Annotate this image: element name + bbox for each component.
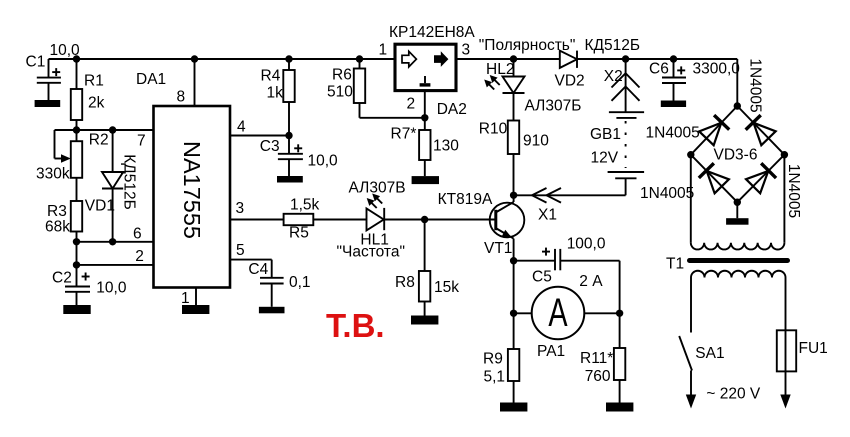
regulator output arrow (filled)	[434, 51, 448, 67]
svg-text:2k: 2k	[88, 95, 105, 112]
resistor R4	[283, 59, 294, 136]
ground (bridge)	[726, 218, 748, 225]
connector X2	[612, 59, 640, 112]
diode VD5 (bridge bottom-left)	[699, 163, 729, 193]
svg-text:PA1: PA1	[537, 343, 565, 360]
svg-text:7: 7	[137, 133, 146, 150]
node VD1 bottom	[109, 238, 116, 245]
wire bridge edge top-left	[691, 106, 738, 155]
ground (C4)	[259, 307, 285, 314]
resistor R6	[354, 59, 425, 118]
svg-text:3: 3	[236, 200, 245, 217]
node rail-C6	[670, 55, 677, 62]
node bridge right	[781, 151, 788, 158]
svg-text:10,0: 10,0	[50, 42, 81, 59]
diode VD6 (bridge bottom-right)	[746, 163, 776, 193]
svg-text:VD2: VD2	[555, 73, 585, 90]
svg-text:330k: 330k	[36, 166, 70, 183]
switch SA1	[679, 278, 696, 409]
svg-text:130: 130	[433, 138, 459, 155]
wire output rail (DA2 pin3 to VD2)	[456, 58, 560, 60]
svg-text:5: 5	[236, 242, 245, 259]
svg-text:FU1: FU1	[799, 340, 828, 357]
regulator input arrow (outline)	[402, 51, 416, 67]
svg-text:R10: R10	[479, 121, 508, 138]
resistor R9	[508, 349, 519, 403]
wire rail corner down to bridge	[736, 59, 738, 106]
fuse FU1	[777, 278, 796, 409]
svg-text:R5: R5	[289, 225, 309, 242]
svg-text:X2: X2	[604, 68, 623, 85]
svg-text:R1: R1	[84, 73, 104, 90]
svg-text:DA1: DA1	[136, 71, 166, 88]
wire emitter chain down	[513, 261, 515, 349]
node emitter-C5	[510, 257, 517, 264]
capacitor C1	[37, 59, 61, 100]
node rail-HL2	[510, 55, 517, 62]
svg-text:C3: C3	[260, 138, 280, 155]
wire bridge edge bottom-left	[691, 155, 738, 203]
resistor R8	[419, 220, 430, 316]
svg-text:68k: 68k	[45, 219, 70, 236]
wire top supply rail left	[49, 58, 396, 60]
svg-text:R9: R9	[483, 351, 503, 368]
wire pin6 row	[77, 241, 154, 243]
svg-text:R4: R4	[261, 68, 281, 85]
wire R2 wiper loop	[55, 130, 71, 163]
resistor R5	[284, 214, 367, 225]
svg-text:10,0: 10,0	[96, 280, 127, 297]
svg-text:12V: 12V	[591, 150, 619, 167]
diode VD1	[102, 130, 123, 242]
svg-text:6: 6	[133, 226, 142, 243]
node C2-pin2	[73, 261, 80, 268]
regulator U2: КР142ЕН8А box DA2	[395, 44, 456, 90]
wire bridge edge bottom-right	[737, 155, 784, 203]
svg-text:0,1: 0,1	[289, 274, 311, 291]
svg-text:VD1: VD1	[85, 198, 115, 215]
wire pin8	[194, 59, 196, 106]
node rail-X2	[622, 55, 629, 62]
ground (R7)	[412, 176, 439, 184]
LED HL1	[367, 194, 425, 231]
node rail-R1	[73, 55, 80, 62]
node rail-R6	[356, 55, 363, 62]
ground (DA1 pin1)	[182, 305, 209, 314]
connector X1	[532, 188, 561, 203]
svg-text:2 А: 2 А	[579, 273, 603, 290]
node VD1 top	[109, 126, 116, 133]
resistor R1	[71, 59, 82, 130]
svg-text:КД512Б: КД512Б	[120, 154, 137, 210]
svg-text:1N4005: 1N4005	[746, 58, 763, 112]
op-amp U1: timer DA1 NA17555 box	[154, 106, 231, 288]
node rail-R4	[285, 55, 292, 62]
wire X1 row	[514, 194, 626, 196]
svg-text:1k: 1k	[267, 85, 284, 102]
node rail-pin8	[191, 55, 198, 62]
ground (R11)	[606, 403, 633, 412]
svg-text:15k: 15k	[434, 279, 459, 296]
svg-text:910: 910	[523, 133, 549, 150]
wire pin3 row	[230, 219, 284, 221]
ground (C1)	[35, 100, 61, 107]
node bridge bottom	[734, 199, 741, 206]
capacitor C5	[514, 248, 620, 314]
capacitor C2	[65, 273, 90, 306]
svg-text:АЛ307Б: АЛ307Б	[525, 98, 582, 115]
svg-text:КР142ЕН8А: КР142ЕН8А	[389, 24, 475, 41]
resistor R2 (potentiometer)	[71, 130, 82, 201]
wire bridge bottom to ground	[736, 202, 738, 218]
svg-text:C6: C6	[649, 61, 669, 78]
node base-R8	[421, 216, 428, 223]
diode VD4 (bridge top-right)	[746, 115, 776, 145]
wire rail VD2 to corner	[577, 58, 737, 60]
svg-text:1: 1	[181, 290, 190, 307]
resistor R7	[419, 118, 430, 176]
transistor Q1: VT1 КТ819А	[490, 195, 525, 260]
svg-text:R6: R6	[332, 67, 352, 84]
svg-text:DA2: DA2	[437, 101, 467, 118]
svg-text:VT1: VT1	[484, 240, 512, 257]
svg-text:C1: C1	[26, 54, 46, 71]
svg-text:1N4005: 1N4005	[640, 185, 694, 202]
node PA1 right	[616, 310, 623, 317]
node R4-C3-pin4	[285, 132, 292, 139]
svg-text:760: 760	[585, 368, 611, 385]
ammeter PA1	[514, 287, 620, 340]
battery GB1	[608, 112, 645, 195]
svg-text:1N4005: 1N4005	[785, 164, 802, 218]
node collector-R10-X1	[510, 192, 517, 199]
svg-text:3300,0: 3300,0	[693, 61, 741, 78]
svg-text:5,1: 5,1	[484, 369, 506, 386]
wire pin4 row	[230, 135, 289, 137]
svg-text:"Частота": "Частота"	[337, 244, 405, 261]
svg-text:SA1: SA1	[695, 345, 724, 362]
svg-text:R3: R3	[47, 203, 67, 220]
svg-text:КД512Б: КД512Б	[585, 37, 641, 54]
svg-text:R8: R8	[395, 274, 415, 291]
node R3-pin6	[73, 238, 80, 245]
svg-text:C2: C2	[52, 270, 72, 287]
wire pin2 row	[77, 264, 154, 266]
svg-text:2: 2	[135, 248, 144, 265]
wire down to C2	[76, 242, 78, 287]
svg-text:8: 8	[177, 89, 186, 106]
wire pin7 row	[55, 129, 154, 131]
svg-text:GB1: GB1	[590, 126, 621, 143]
svg-text:R7*: R7*	[391, 126, 417, 143]
ground (R8)	[411, 316, 438, 325]
svg-text:VD3-6: VD3-6	[714, 147, 758, 164]
wire base	[425, 219, 496, 221]
svg-text:1: 1	[379, 42, 388, 59]
node bridge top	[734, 102, 741, 109]
svg-text:1,5k: 1,5k	[290, 197, 320, 214]
resistor R3	[71, 201, 82, 242]
capacitor C3	[278, 136, 303, 177]
svg-text:T1: T1	[666, 256, 684, 273]
wire pin2 DA2 down	[424, 91, 426, 118]
svg-text:100,0: 100,0	[567, 236, 606, 253]
svg-text:3: 3	[462, 42, 471, 59]
svg-text:~ 220 V: ~ 220 V	[706, 386, 761, 403]
wire pin5 to C4	[230, 260, 272, 278]
svg-text:C5: C5	[532, 269, 552, 286]
node bridge left	[687, 151, 694, 158]
svg-text:АЛ307В: АЛ307В	[349, 180, 406, 197]
svg-text:R11*: R11*	[580, 350, 613, 367]
ground (C2)	[63, 305, 90, 314]
svg-text:Т.В.: Т.В.	[326, 307, 385, 344]
resistor R10	[508, 121, 519, 196]
diode VD2	[560, 51, 577, 68]
regulator common pin symbol	[420, 76, 431, 87]
svg-text:X1: X1	[538, 207, 557, 224]
ground (C6)	[661, 101, 686, 108]
svg-text:R2: R2	[89, 132, 109, 149]
svg-text:NA17555: NA17555	[179, 141, 205, 239]
node R1-R2-wiper	[73, 126, 80, 133]
LED HL2	[484, 59, 524, 121]
wire bridge edge top-right	[737, 106, 784, 155]
node R6-R7-pin2	[421, 114, 428, 121]
svg-text:A: A	[548, 291, 568, 336]
ground (C3)	[277, 176, 303, 183]
svg-text:2: 2	[407, 96, 416, 113]
transformer T1 secondary winding	[691, 155, 785, 250]
node PA1 left	[510, 310, 517, 317]
svg-text:1N4005: 1N4005	[646, 125, 700, 142]
transformer T1 core	[690, 258, 788, 263]
transformer T1 primary winding	[691, 271, 786, 278]
svg-text:4: 4	[237, 119, 246, 136]
diode VD3 (bridge top-left)	[699, 115, 729, 145]
svg-text:КТ819А: КТ819А	[438, 191, 493, 208]
capacitor C4	[260, 278, 284, 307]
resistor R11	[614, 313, 625, 402]
wire pin1	[195, 288, 197, 306]
svg-text:HL2: HL2	[486, 61, 514, 78]
svg-text:C4: C4	[248, 261, 268, 278]
svg-text:10,0: 10,0	[308, 153, 339, 170]
capacitor C6	[662, 59, 686, 101]
ground (R9)	[500, 403, 527, 412]
svg-text:510: 510	[327, 84, 353, 101]
